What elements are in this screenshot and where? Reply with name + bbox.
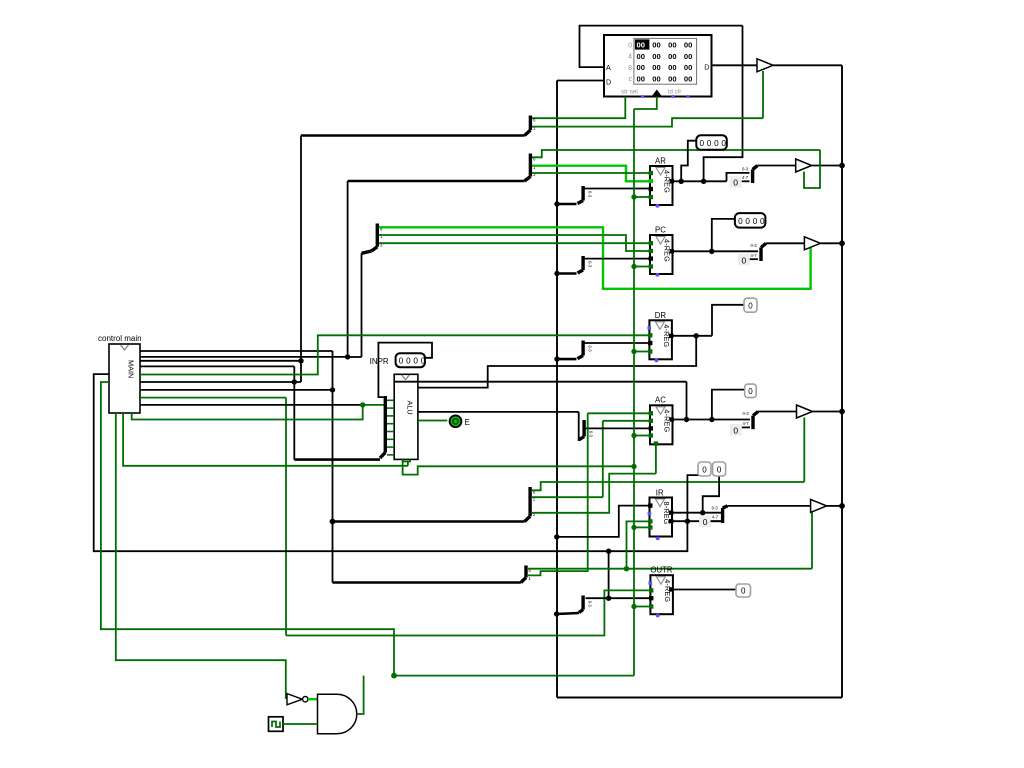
svg-text:0: 0 xyxy=(399,357,404,366)
wire AC buffer out xyxy=(813,411,843,413)
register IR (8-REG) xyxy=(650,498,673,537)
wire MAIN w1 xyxy=(140,350,333,352)
svg-text:00: 00 xyxy=(668,52,676,61)
junction IR out-sense xyxy=(685,519,690,524)
wire ALU result to AC splitter xyxy=(418,411,579,413)
svg-text:MAIN: MAIN xyxy=(127,360,136,378)
clock source CLK xyxy=(269,717,284,732)
svg-text:0: 0 xyxy=(703,517,708,527)
wire branch to OUTR pin3 line xyxy=(608,551,610,598)
wire S3 fan xyxy=(362,251,372,253)
junction IR-frame xyxy=(839,503,845,509)
wire AR output xyxy=(673,180,727,182)
splitter S-PC-in (bus to PC) xyxy=(578,256,593,273)
DR pin1 (unconnected) xyxy=(648,326,652,330)
wire MAIN w3 xyxy=(140,360,301,362)
wire MAIN w10 xyxy=(140,404,363,406)
wire RAM buffer out to frame xyxy=(773,64,842,66)
wire DR data pin3 xyxy=(584,342,649,344)
junction w10 xyxy=(360,402,365,407)
junction PC-frame xyxy=(839,240,845,246)
NOT gate G1 xyxy=(287,694,303,705)
svg-text:D: D xyxy=(606,78,611,87)
splitter S-ALU-in xyxy=(380,396,394,458)
svg-text:AR: AR xyxy=(655,157,666,166)
wire AC pin2 control xyxy=(603,420,650,422)
wire ALU clock jog east xyxy=(403,459,634,474)
wire RAM D-in from bus xyxy=(557,80,604,82)
svg-text:AC: AC xyxy=(655,396,666,405)
wire AC pin1 line west chain xyxy=(528,413,588,575)
svg-text:0-3: 0-3 xyxy=(751,243,758,248)
wire AR pin1 control xyxy=(532,172,650,174)
AR bottom pin (unconnected) xyxy=(656,204,660,208)
wire control bus vertical x=361.5 xyxy=(361,253,363,357)
wire AR buffer enable line y=150 xyxy=(532,150,820,157)
probe AC value xyxy=(745,384,757,398)
wire AR load (lime) to AR pin2 xyxy=(532,166,650,182)
hex display AR value xyxy=(696,135,727,150)
svg-text:0-3: 0-3 xyxy=(587,346,592,353)
svg-text:str sel: str sel xyxy=(621,89,638,96)
svg-text:4-7: 4-7 xyxy=(712,515,719,520)
svg-text:0: 0 xyxy=(741,587,746,596)
wire MAIN left pin1 to IR output (sense) xyxy=(94,374,688,551)
svg-text:0: 0 xyxy=(748,387,753,396)
probe OUTR value xyxy=(736,584,751,597)
wire control vertical x=332.5 xyxy=(332,351,334,583)
svg-text:0-3: 0-3 xyxy=(743,411,750,416)
wire splitter to AC buffer xyxy=(758,411,797,413)
probe DR value xyxy=(744,298,757,312)
wire MAIN w4 xyxy=(140,365,294,367)
svg-text:0: 0 xyxy=(702,466,707,475)
wire MAIN bottom pin1 to NOT gate xyxy=(116,413,286,699)
wire PC pin2 control xyxy=(379,235,650,251)
LED indicator E xyxy=(450,415,470,427)
wire S-ALU-in stem xyxy=(294,458,380,461)
wire green vertical x=286 xyxy=(285,398,287,636)
register AC (4-REG) xyxy=(650,405,673,444)
svg-text:0: 0 xyxy=(413,357,418,366)
register AR (4-REG) xyxy=(650,166,673,205)
wire AC output xyxy=(673,419,751,421)
wire splitter S2 stem bus xyxy=(348,180,525,183)
wire IR buffer enable rise xyxy=(811,513,813,569)
junction at OUTR pin3 line xyxy=(606,596,611,601)
wire PC buffer out xyxy=(820,242,842,244)
svg-text:0: 0 xyxy=(742,255,747,265)
svg-text:0: 0 xyxy=(406,357,411,366)
wire AR pad stub xyxy=(742,180,750,182)
wire OUTR data pin3 xyxy=(586,597,651,599)
svg-text:00: 00 xyxy=(652,63,660,72)
wire ALU clock jog west link xyxy=(407,462,409,466)
wire S-OUT-ctl stem xyxy=(333,581,521,584)
wire S-PC-in stem xyxy=(557,272,577,275)
wire AC out drop xyxy=(686,382,688,420)
svg-text:00: 00 xyxy=(637,52,645,61)
splitter S2 (AR ctl) xyxy=(525,154,537,182)
svg-text:0-3: 0-3 xyxy=(587,601,592,608)
wire AC pin1 control xyxy=(588,412,650,414)
wire MAIN w8 xyxy=(140,389,333,391)
junction IR pin3 tap xyxy=(624,566,629,571)
junction clock-AND xyxy=(391,673,397,679)
wire RAM D-out to buffer xyxy=(712,64,758,66)
wire RAM address from AR output xyxy=(704,26,743,182)
splitter S-IR-ctl xyxy=(525,487,536,522)
wire clock line y=675.6 xyxy=(394,675,634,677)
wire IR output low xyxy=(672,512,721,514)
junction bus-DR xyxy=(554,356,559,361)
wire PC output xyxy=(673,250,759,252)
wire AC pin2 riser xyxy=(602,421,604,497)
junction AC out-ALU xyxy=(684,417,689,422)
svg-text:0: 0 xyxy=(733,178,738,188)
wire S-OUTR-in stem xyxy=(557,613,579,614)
junction clock to IR pin4 xyxy=(631,525,636,530)
wire PC data pin3 xyxy=(584,258,650,260)
wire RAM buffer enable drop xyxy=(762,71,764,118)
wire DR probe feed xyxy=(712,305,744,336)
wire clock source to AND xyxy=(283,723,318,725)
wire AR clock pin4 xyxy=(634,196,650,198)
wire AND output to clock net xyxy=(357,676,364,714)
wire RAM buffer enable to splitter S1 xyxy=(532,118,763,126)
RAM ld pin (unconnected) xyxy=(671,95,674,98)
wire MAIN w2 xyxy=(140,356,348,358)
svg-text:A: A xyxy=(606,63,611,72)
probe IR high xyxy=(698,462,711,476)
junction AC-frame xyxy=(839,409,845,415)
junction clock-ALU line xyxy=(631,464,636,469)
svg-text:00: 00 xyxy=(652,74,660,83)
wire IR data pin1 from bus xyxy=(557,506,650,537)
register DR (4-REG) xyxy=(649,320,672,359)
wire RAM address loop west-top xyxy=(580,26,743,68)
junction bus-AR xyxy=(554,201,559,206)
RAM sel pin (unconnected) xyxy=(641,95,644,98)
buffer B2 (AR to bus) xyxy=(796,159,812,172)
wire ALU result drop xyxy=(578,412,580,441)
wire RAM clock feed xyxy=(634,97,657,110)
junction AR out-display xyxy=(679,179,684,184)
wire DR out to ALU input B xyxy=(394,336,696,388)
svg-text:0: 0 xyxy=(760,217,765,226)
svg-text:control main: control main xyxy=(98,334,142,343)
svg-text:00: 00 xyxy=(637,41,645,50)
svg-text:0-3: 0-3 xyxy=(742,167,749,172)
wire AR data pin3 xyxy=(584,188,650,190)
junction clock to DR pin4 xyxy=(631,349,636,354)
svg-text:0-3: 0-3 xyxy=(588,431,593,438)
junction w3-x301 xyxy=(298,358,303,363)
svg-text:0: 0 xyxy=(628,42,632,49)
wire ALU E output xyxy=(418,420,447,422)
splitter S-OUTR-in (bus to OUTR) xyxy=(579,596,592,613)
wire splitter S1 stem bus xyxy=(301,134,525,137)
wire RAM str from splitter S1 xyxy=(532,97,625,119)
wire AC clock pin4 xyxy=(634,435,650,437)
splitter S-OUT-ctl xyxy=(521,566,532,583)
wire IR probe1 feed xyxy=(687,475,703,521)
junction AR out-address xyxy=(701,179,706,184)
svg-text:00: 00 xyxy=(652,52,660,61)
OUTR bottom pin (unconnected) xyxy=(656,614,660,618)
svg-text:0-3: 0-3 xyxy=(587,261,592,268)
wire IR buffer enable line y=568.7 xyxy=(528,568,812,570)
wire OUTR output xyxy=(672,589,736,591)
junction PC out-display xyxy=(709,249,714,254)
svg-text:0: 0 xyxy=(721,139,726,148)
wire AR buffer enable loop xyxy=(804,150,820,188)
splitter S-AC-out (to bus buffer) xyxy=(743,411,759,429)
wire INPR to ALU splitter xyxy=(378,343,432,398)
wire PC pad stub xyxy=(750,258,758,260)
svg-text:00: 00 xyxy=(668,74,676,83)
wire S-AR-in stem xyxy=(557,203,577,206)
wire IR clock pin4 xyxy=(634,526,650,528)
junction clock to PC pin4 xyxy=(631,264,636,269)
wire MAIN w6 (green) to DR pin2 xyxy=(140,335,649,374)
svg-text:0: 0 xyxy=(733,425,738,435)
subcircuit MAIN (control unit) xyxy=(109,344,140,413)
splitter S-PC-out (to bus buffer) xyxy=(751,243,767,261)
splitter S-AR-out (to bus buffer) xyxy=(742,166,758,184)
wire AC buffer enable from IR-ctl leg1 xyxy=(532,482,804,490)
svg-text:00: 00 xyxy=(684,74,692,83)
junction clock to OUTR pin4 xyxy=(631,604,636,609)
junction w8-x332 xyxy=(330,387,335,392)
wire AR buffer out xyxy=(812,165,842,167)
junction IRsense-OUTR xyxy=(606,549,611,554)
svg-text:4: 4 xyxy=(628,54,632,61)
wire AC bottom pin drop xyxy=(655,444,657,473)
constant 0 IR pad xyxy=(699,515,711,527)
wire splitter to IR buffer xyxy=(728,505,811,507)
wire bus vertical x=557 (common bus) xyxy=(556,81,558,698)
AND gate G2 xyxy=(318,694,357,734)
wire frame right vertical x=842 (bus return) xyxy=(841,65,843,697)
wire NOT to AND xyxy=(308,698,318,700)
OUTR pin1 (unconnected) xyxy=(649,581,653,585)
wire AC probe feed xyxy=(712,390,745,420)
wire DR output xyxy=(672,335,712,337)
wire AC feedback to ALU input A xyxy=(394,381,686,383)
svg-text:4-7: 4-7 xyxy=(742,175,749,180)
wire PC pin1 control xyxy=(379,242,650,244)
wire DR clock pin4 xyxy=(634,351,649,353)
svg-text:0: 0 xyxy=(745,217,750,226)
wire MAIN bottom pin2 to ALU clock line xyxy=(123,413,408,466)
DR bottom pin (unconnected) xyxy=(655,359,659,363)
junction clock to AR pin4 xyxy=(631,194,636,199)
probe IR low xyxy=(713,462,726,476)
wire stem jog x348-x361 xyxy=(348,356,362,358)
svg-text:0: 0 xyxy=(748,302,753,311)
PC bottom pin (unconnected) xyxy=(656,273,660,277)
wire MAIN left pin2 clock sense xyxy=(101,382,394,676)
splitter S-AC-in (ALU to AC) xyxy=(579,420,594,440)
junction bus-OUTR xyxy=(554,611,559,616)
svg-text:0: 0 xyxy=(753,217,758,226)
splitter S-IR-out (to bus buffer) xyxy=(712,506,728,524)
svg-text:00: 00 xyxy=(637,63,645,72)
svg-text:00: 00 xyxy=(652,41,660,50)
svg-text:00: 00 xyxy=(637,74,645,83)
wire AR out jog to splitter leg xyxy=(727,173,750,181)
svg-text:D: D xyxy=(704,63,709,72)
wire IR output high xyxy=(672,520,721,522)
svg-text:OUTR: OUTR xyxy=(650,566,672,575)
junction stem-x332 xyxy=(330,519,336,525)
buffer B3 (PC to bus) xyxy=(804,237,820,250)
svg-text:0: 0 xyxy=(707,139,712,148)
wire AC buffer enable drop xyxy=(803,418,805,483)
svg-text:0: 0 xyxy=(717,466,722,475)
svg-text:ALU: ALU xyxy=(406,401,415,415)
svg-text:8: 8 xyxy=(628,65,632,72)
junction x294-w7 xyxy=(292,379,297,384)
junction w2 joins stem chain xyxy=(345,354,350,359)
wire IR pin3 control xyxy=(627,521,650,568)
wire clock vertical x=634 xyxy=(633,109,635,676)
wire PC display feed xyxy=(712,219,735,251)
constant 0 PC pad xyxy=(738,254,750,265)
wire IR buffer out xyxy=(827,505,842,507)
RAM M1 (16x8 memory) xyxy=(604,35,712,97)
IR bottom pin (unconnected) xyxy=(656,537,660,541)
wire AC data pin3 xyxy=(586,427,651,429)
splitter S3 (PC ctl) xyxy=(372,224,384,252)
splitter S1 (RAM ctl) xyxy=(525,116,537,136)
svg-text:0: 0 xyxy=(714,139,719,148)
constant 0 AR pad xyxy=(730,176,742,188)
wire IR ctl leg2 east xyxy=(532,496,603,498)
splitter S-AR-in (bus to AR) xyxy=(578,186,593,204)
wire MAIN w7 xyxy=(140,381,301,383)
buffer B1 (RAM output to bus) xyxy=(757,59,773,72)
wire control bus vertical x=348 xyxy=(347,181,349,357)
svg-text:0: 0 xyxy=(700,139,705,148)
wire AC pad stub xyxy=(742,426,750,428)
wire OUTR clock pin4 xyxy=(634,606,650,608)
wire control vertical x=294.3 xyxy=(293,366,295,459)
register OUTR (4-REG) xyxy=(650,575,673,614)
svg-text:E: E xyxy=(465,418,470,427)
hex display PC value xyxy=(735,213,766,228)
wire ALU pin link xyxy=(403,459,410,461)
constant 0 AC pad xyxy=(730,424,742,436)
register PC (4-REG) xyxy=(650,235,673,274)
svg-text:0: 0 xyxy=(738,217,743,226)
splitter S-DR-in (bus to DR) xyxy=(578,341,593,359)
wire S-DR-in stem xyxy=(557,358,577,361)
wire IR pad stub xyxy=(711,520,722,522)
svg-text:0-3: 0-3 xyxy=(587,191,592,198)
hex display INPR value xyxy=(396,353,426,367)
wire PC clock pin4 xyxy=(634,266,650,268)
junction AR-frame xyxy=(839,163,845,169)
svg-text:00: 00 xyxy=(684,63,692,72)
wire PC buffer enable (lime loop) xyxy=(379,227,811,288)
svg-text:00: 00 xyxy=(684,41,692,50)
svg-text:00: 00 xyxy=(668,63,676,72)
wire control bus vertical x=301 xyxy=(300,136,302,383)
svg-text:ld clr: ld clr xyxy=(668,89,681,96)
wire w10 east to ALU splitter xyxy=(363,404,385,406)
junction bus-PC xyxy=(554,271,559,276)
wire MAIN bottom pin3 joins w10 xyxy=(132,405,363,420)
buffer B4 (AC to bus) xyxy=(797,405,813,418)
svg-text:4-7: 4-7 xyxy=(743,421,750,426)
wire AR display feed xyxy=(681,141,696,182)
subcircuit ALU xyxy=(394,374,418,459)
svg-text:00: 00 xyxy=(668,41,676,50)
wire IR probe2 feed xyxy=(703,476,719,513)
wire splitter to PC buffer xyxy=(766,242,804,244)
buffer B5 (IR to bus) xyxy=(811,499,827,512)
wire splitter to AR buffer xyxy=(758,165,796,167)
svg-text:00: 00 xyxy=(684,52,692,61)
svg-text:PC: PC xyxy=(655,226,666,235)
IR pin2 (unconnected) xyxy=(648,512,652,516)
svg-text:0-3: 0-3 xyxy=(712,506,719,511)
svg-text:DR: DR xyxy=(655,311,667,320)
svg-text:IR: IR xyxy=(656,489,664,498)
wire OUTR pin2 control xyxy=(286,590,650,635)
svg-text:4-7: 4-7 xyxy=(751,253,758,258)
junction clock to AC pin4 xyxy=(631,433,636,438)
junction IR out-probe2 xyxy=(700,510,705,515)
wire frame bottom xyxy=(557,697,842,699)
wire IR ctl leg3 to AC status xyxy=(532,474,656,513)
junction bus-IR xyxy=(554,534,559,539)
junction DR out xyxy=(694,333,699,338)
RAM clr pin (unconnected) xyxy=(686,95,689,98)
junction AC out-probe xyxy=(709,417,714,422)
wire MAIN w9 (green) xyxy=(140,397,286,399)
svg-text:c: c xyxy=(629,76,633,83)
wire S-IR-ctl stem xyxy=(333,520,525,523)
